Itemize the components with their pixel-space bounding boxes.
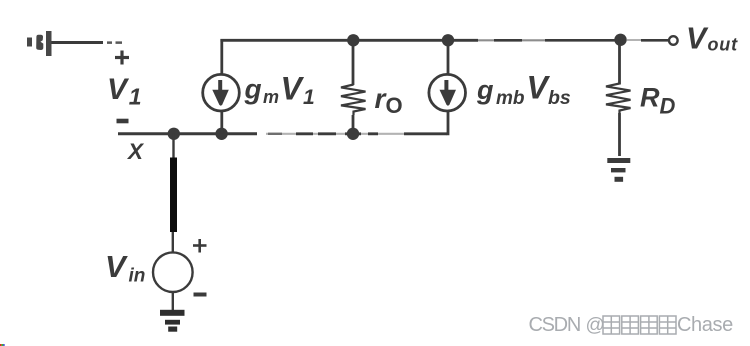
minus sign of V1 bbox=[117, 119, 129, 124]
junction dot rO top bbox=[347, 34, 359, 46]
label gmbVbs bbox=[476, 69, 571, 109]
wire gmbVbs bottom bbox=[447, 112, 449, 136]
svg-text:g: g bbox=[244, 74, 262, 105]
label Vout bbox=[686, 22, 738, 56]
wire gate horizontal bbox=[52, 41, 104, 44]
svg-text:m: m bbox=[263, 87, 279, 107]
wire thick bar to Vin source bbox=[172, 232, 174, 253]
label Vin bbox=[105, 249, 145, 287]
wire to Vout bbox=[641, 39, 669, 42]
current source gmbVbs bbox=[429, 74, 466, 111]
gate terminal hatch mark bbox=[27, 35, 43, 50]
gate electrode bar bbox=[46, 31, 52, 56]
minus sign at Vin bbox=[194, 293, 207, 297]
svg-text:1: 1 bbox=[129, 84, 142, 110]
svg-text:g: g bbox=[476, 75, 494, 105]
svg-text:in: in bbox=[129, 266, 146, 287]
wire gmV1 bottom bbox=[220, 112, 223, 134]
watermark bbox=[529, 314, 734, 336]
ground at RD bbox=[607, 158, 630, 182]
label RD bbox=[640, 83, 676, 119]
plus sign at Vin bbox=[193, 239, 207, 253]
svg-text:V: V bbox=[105, 249, 128, 284]
svg-text:mb: mb bbox=[496, 88, 525, 109]
current source gmV1 bbox=[203, 74, 240, 111]
voltage source Vin bbox=[153, 252, 193, 292]
wire gmV1 top bbox=[220, 39, 223, 75]
wire bottom rail dark dashes bbox=[296, 132, 447, 135]
svg-text:D: D bbox=[660, 94, 676, 119]
junction dot gmV1 bottom bbox=[215, 128, 227, 140]
junction dot gmbVbs top bbox=[442, 34, 454, 46]
svg-text:bs: bs bbox=[548, 87, 571, 109]
svg-text:1: 1 bbox=[303, 86, 315, 109]
wire bottom rail solid part bbox=[118, 132, 257, 135]
junction dot rO bottom bbox=[347, 128, 359, 140]
resistor RD bbox=[606, 84, 631, 114]
wire top rail faded base bbox=[478, 39, 620, 41]
label rO bbox=[375, 83, 403, 118]
wire RD top bbox=[618, 40, 621, 85]
plus sign of V1 bbox=[115, 51, 129, 65]
svg-text:X: X bbox=[126, 139, 145, 164]
wire X to Vin thin upper bbox=[172, 134, 174, 158]
junction dot RD top bbox=[614, 34, 626, 46]
wire Vin to ground bbox=[172, 292, 174, 310]
wire bottom rail faint dash bbox=[268, 133, 282, 135]
svg-text:V: V bbox=[281, 70, 305, 106]
svg-text:V: V bbox=[527, 69, 551, 105]
svg-text:@: @ bbox=[586, 315, 605, 336]
svg-text:R: R bbox=[640, 83, 660, 113]
svg-text:V: V bbox=[686, 22, 709, 56]
wire rO top bbox=[352, 39, 355, 85]
ground at Vin bbox=[160, 310, 185, 332]
wire bottom rail faded base bbox=[266, 133, 448, 135]
wire gmbVbs top bbox=[447, 39, 450, 75]
wire gate horizontal dashes tail bbox=[107, 41, 122, 44]
wire top rail solid bbox=[220, 39, 478, 42]
resistor rO bbox=[341, 85, 366, 116]
label V1 bbox=[107, 73, 141, 110]
svg-text:out: out bbox=[708, 35, 739, 55]
wire rO bottom bbox=[352, 115, 355, 134]
wire top rail dark dashes bbox=[494, 39, 621, 42]
scan corner artifact bbox=[0, 344, 5, 346]
label gmV1 bbox=[244, 70, 315, 109]
output terminal circle bbox=[669, 36, 678, 45]
wire X to Vin thick highlighted segment bbox=[170, 158, 177, 233]
node X junction dot bbox=[168, 128, 180, 140]
wire to Vout faded bbox=[627, 39, 642, 41]
svg-text:O: O bbox=[386, 93, 403, 118]
wire RD bottom bbox=[618, 113, 621, 156]
svg-text:V: V bbox=[107, 73, 130, 106]
svg-text:CSDN: CSDN bbox=[529, 314, 580, 336]
svg-text:Chase: Chase bbox=[677, 314, 733, 336]
